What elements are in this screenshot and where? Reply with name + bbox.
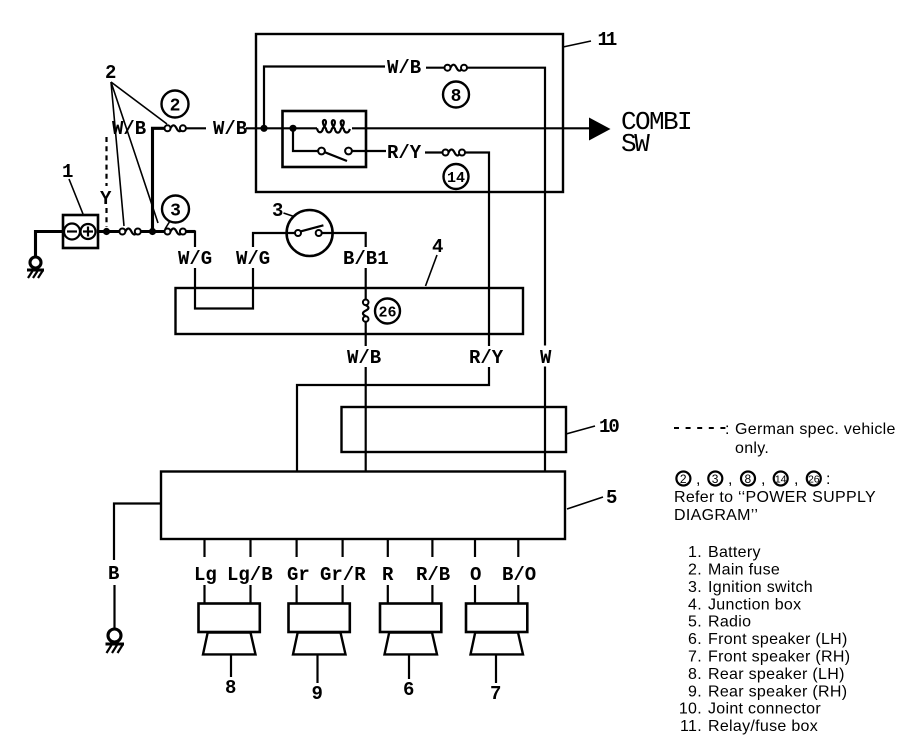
- svg-text:,: ,: [728, 471, 733, 488]
- svg-text:Ignition switch: Ignition switch: [708, 579, 813, 596]
- label COMBI SW: [621, 107, 691, 159]
- svg-text:11: 11: [598, 29, 617, 51]
- svg-text:German spec. vehicle: German spec. vehicle: [735, 421, 896, 438]
- svg-text:Gr: Gr: [287, 564, 310, 586]
- relay/fuse box 11: [256, 34, 563, 192]
- wire W/B into relay box: [186, 127, 206, 129]
- speaker wires lower: [205, 585, 519, 604]
- svg-text:Front speaker (LH): Front speaker (LH): [708, 631, 848, 648]
- wire W/G (ignition left): [253, 233, 295, 288]
- svg-text:2: 2: [105, 62, 116, 84]
- wire Y dashed (German spec): [105, 137, 107, 227]
- svg-text:Rear speaker (LH): Rear speaker (LH): [708, 666, 845, 683]
- svg-text:Refer to ‘‘POWER SUPPLY: Refer to ‘‘POWER SUPPLY: [674, 489, 876, 506]
- label 10: [566, 416, 619, 438]
- label 1 (battery): [62, 161, 83, 214]
- wire R/Y to radio: [297, 367, 489, 472]
- wire W/B vertical (junction B up to fuse line): [153, 128, 165, 231]
- svg-text:DIAGRAM’’: DIAGRAM’’: [674, 507, 758, 524]
- svg-text:R/Y: R/Y: [387, 142, 422, 164]
- node: junction at relay input: [260, 125, 267, 132]
- relay U1 box: [283, 111, 367, 167]
- front speaker LH 6: [380, 604, 441, 702]
- arrow to COMBI SW: [589, 118, 611, 141]
- svg-text:1.: 1.: [688, 544, 702, 561]
- wire battery to ground: [36, 232, 64, 258]
- svg-text:4: 4: [432, 236, 443, 258]
- radio 5: [161, 472, 565, 540]
- svg-text:3.: 3.: [688, 579, 702, 596]
- svg-text:Radio: Radio: [708, 614, 751, 631]
- svg-text:6: 6: [403, 679, 414, 701]
- svg-text:26: 26: [378, 305, 396, 322]
- circled ref 8: [443, 82, 469, 108]
- fuse (ref 26): [363, 300, 369, 322]
- radio output stubs: [205, 539, 519, 557]
- circled ref 26: [375, 299, 400, 324]
- svg-text:Battery: Battery: [708, 544, 761, 561]
- svg-text:9.: 9.: [688, 684, 702, 701]
- svg-text:10: 10: [599, 416, 619, 438]
- svg-text:R: R: [382, 564, 394, 586]
- svg-text:W/B: W/B: [112, 118, 146, 140]
- wire R/Y down: [465, 153, 489, 347]
- legend: numbered list: [679, 544, 850, 735]
- svg-text:Gr/R: Gr/R: [320, 564, 366, 586]
- svg-text:Junction box: Junction box: [708, 597, 801, 614]
- wire W/B down from junction box: [365, 322, 367, 346]
- wire W/B up and right to fuse 8: [264, 67, 385, 129]
- svg-text:Lg/B: Lg/B: [227, 564, 273, 586]
- fuse (ref 2) on W/B line: [165, 125, 186, 131]
- svg-text:W/G: W/G: [178, 248, 212, 270]
- ground (battery): [27, 257, 44, 278]
- svg-text::: :: [725, 421, 730, 438]
- junction A: [103, 228, 110, 235]
- wire joining W/G wires inside box: [195, 288, 253, 309]
- label 4: [426, 236, 444, 286]
- svg-text:5.: 5.: [688, 614, 702, 631]
- svg-text:10.: 10.: [679, 701, 702, 718]
- svg-text:Rear speaker (RH): Rear speaker (RH): [708, 684, 847, 701]
- wire B from radio: [114, 504, 161, 629]
- svg-text:R/B: R/B: [416, 564, 450, 586]
- relay coil: [283, 120, 590, 133]
- joint connector 10: [342, 407, 567, 452]
- svg-text:8: 8: [225, 677, 236, 699]
- svg-text:,: ,: [761, 471, 766, 488]
- svg-text:Front speaker (RH): Front speaker (RH): [708, 649, 850, 666]
- wire W down from fuse 8: [467, 68, 545, 346]
- svg-text:8: 8: [745, 472, 752, 486]
- svg-text:3: 3: [170, 202, 181, 222]
- legend: refer note: [674, 489, 876, 524]
- svg-text:11.: 11.: [680, 718, 702, 735]
- legend: dashed German spec note: [674, 421, 896, 457]
- svg-text:7.: 7.: [688, 649, 702, 666]
- svg-text:2.: 2.: [688, 562, 702, 579]
- svg-text:W/B: W/B: [213, 118, 247, 140]
- junction B: [149, 228, 156, 235]
- junction box 4: [176, 288, 524, 334]
- svg-text:26: 26: [808, 474, 820, 486]
- wire to fuse 8: [426, 67, 445, 69]
- svg-text:5: 5: [606, 487, 617, 509]
- fuse (main fuse left): [119, 229, 140, 235]
- label 5: [567, 487, 617, 509]
- node: relay coil junction: [289, 125, 296, 132]
- circled ref 3: [162, 196, 189, 230]
- circled ref 2: [162, 91, 189, 118]
- rear speaker RH 9: [289, 604, 350, 706]
- svg-text:3: 3: [712, 472, 719, 486]
- svg-text:9: 9: [312, 683, 323, 705]
- svg-text:2: 2: [680, 472, 687, 486]
- svg-text:,: ,: [794, 471, 799, 488]
- svg-text:only.: only.: [735, 440, 769, 457]
- ignition switch 3: [287, 210, 333, 256]
- svg-text:B/O: B/O: [502, 564, 536, 586]
- svg-text:6.: 6.: [688, 631, 702, 648]
- front speaker RH 7: [466, 604, 527, 706]
- label 3 (ignition switch): [272, 200, 294, 222]
- wire W/G (from main fuse): [186, 232, 195, 289]
- svg-text:1: 1: [62, 161, 73, 183]
- fuse (main fuse right, ref 3): [165, 229, 186, 235]
- svg-text:W: W: [540, 347, 552, 369]
- svg-text:Relay/fuse box: Relay/fuse box: [708, 718, 818, 735]
- svg-text:2: 2: [170, 97, 181, 117]
- wire W/B to radio: [365, 367, 367, 472]
- svg-text:8.: 8.: [688, 666, 702, 683]
- svg-text:W/B: W/B: [347, 347, 381, 369]
- circled ref 14: [444, 164, 469, 189]
- svg-text:4.: 4.: [688, 597, 702, 614]
- fuse (ref 8): [445, 65, 468, 71]
- svg-text:B: B: [108, 563, 119, 585]
- svg-text:Joint connector: Joint connector: [708, 701, 821, 718]
- rear speaker LH 8: [199, 604, 260, 700]
- svg-text::: :: [826, 471, 831, 488]
- leader lines from label 2: [111, 82, 167, 226]
- battery 1: [63, 215, 98, 248]
- svg-text:Y: Y: [100, 188, 112, 210]
- svg-text:W/G: W/G: [236, 248, 270, 270]
- label 11: [563, 29, 617, 51]
- svg-text:14: 14: [775, 474, 787, 486]
- wire to fuse 14: [425, 151, 442, 153]
- svg-text:,: ,: [696, 471, 701, 488]
- svg-text:Main fuse: Main fuse: [708, 562, 780, 579]
- svg-text:SW: SW: [621, 129, 650, 159]
- svg-text:Lg: Lg: [194, 564, 217, 586]
- svg-text:7: 7: [490, 683, 501, 705]
- wire battery line y=231.5: [98, 230, 195, 233]
- svg-text:O: O: [470, 564, 481, 586]
- legend: circled refs row: [676, 471, 830, 488]
- svg-text:R/Y: R/Y: [469, 347, 504, 369]
- svg-text:14: 14: [447, 170, 465, 187]
- ground (radio B): [106, 629, 125, 653]
- fuse (ref 14): [443, 150, 466, 156]
- svg-text:B/B1: B/B1: [343, 248, 389, 270]
- relay contact switch: [293, 128, 386, 161]
- svg-text:8: 8: [451, 87, 462, 107]
- svg-text:3: 3: [272, 200, 283, 222]
- wire B/B1 (ignition right): [322, 233, 366, 300]
- svg-text:W/B: W/B: [387, 57, 421, 79]
